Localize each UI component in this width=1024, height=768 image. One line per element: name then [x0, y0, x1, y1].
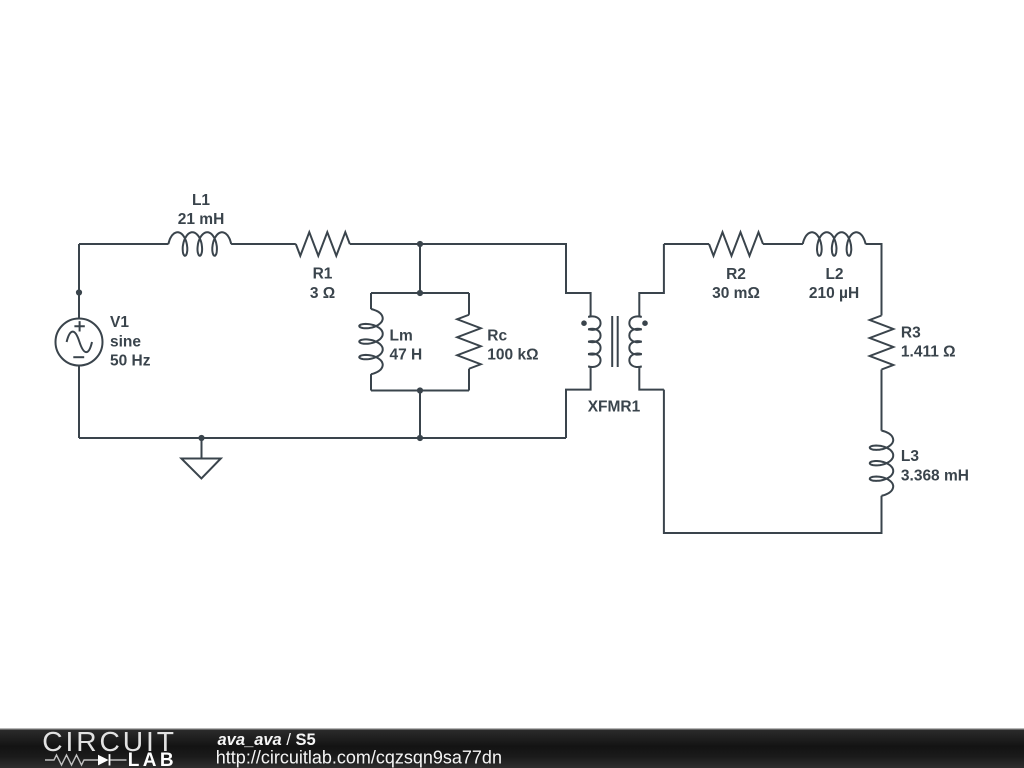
svg-text:L2: L2	[825, 266, 843, 283]
wire transformer secondary bottom lead	[639, 368, 664, 389]
wire ground rail	[79, 437, 566, 439]
wire L1 to R1	[231, 243, 296, 245]
wire Rc bottom lead	[468, 369, 470, 391]
svg-text:Rc: Rc	[487, 328, 507, 345]
voltage source V1 circle	[56, 319, 103, 366]
transformer XFMR1 secondary winding	[629, 315, 641, 368]
wire V1 bottom lead	[78, 366, 80, 439]
transformer XFMR1 primary winding	[588, 315, 600, 368]
CircuitLab logo diode	[98, 755, 109, 766]
svg-text:1.411 Ω: 1.411 Ω	[901, 344, 956, 361]
wire Lm top lead	[370, 293, 372, 309]
wire R3 to L3	[881, 370, 883, 431]
node dot parallel top	[417, 290, 423, 296]
V1 sine wave	[67, 332, 92, 352]
wire R1 to transformer primary corner	[350, 244, 591, 315]
svg-text:LAB: LAB	[128, 750, 177, 768]
svg-text:sine: sine	[110, 333, 141, 350]
wire parallel section bottom bar	[371, 390, 469, 392]
svg-text:R1: R1	[313, 266, 333, 283]
ground symbol triangle	[181, 459, 220, 479]
wire secondary top rail to R2	[664, 243, 709, 245]
V1 minus sign	[73, 356, 84, 358]
XFMR1 primary polarity dot	[581, 320, 587, 326]
node dot ground rail center	[417, 435, 423, 441]
ground stem	[201, 438, 203, 459]
inductor L2	[803, 232, 866, 255]
svg-text:3 Ω: 3 Ω	[310, 285, 335, 302]
svg-text:Lm: Lm	[390, 328, 413, 345]
wire parallel section top bar	[371, 292, 469, 294]
node dot top rail branch	[417, 241, 423, 247]
node dot V1 top	[76, 289, 82, 295]
V1 plus sign	[74, 321, 84, 331]
resistor Rc	[457, 315, 481, 369]
XFMR1 secondary polarity dot	[642, 320, 648, 326]
resistor R1	[296, 232, 350, 256]
footer top border line	[0, 728, 1024, 730]
resistor R2	[709, 232, 763, 256]
svg-text:3.368 mH: 3.368 mH	[901, 467, 969, 484]
wire transformer secondary top lead	[639, 244, 664, 315]
wire node branch down to parallel section	[419, 244, 421, 293]
inductor L1	[168, 232, 231, 255]
svg-text:ava_ava / S5: ava_ava / S5	[218, 731, 316, 749]
svg-text:L3: L3	[901, 448, 919, 465]
svg-text:30 mΩ: 30 mΩ	[712, 285, 760, 302]
svg-text:47 H: 47 H	[390, 347, 423, 364]
inductor L3	[870, 431, 893, 496]
svg-text:210 µH: 210 µH	[809, 285, 859, 302]
svg-text:50 Hz: 50 Hz	[110, 352, 151, 369]
wire parallel section down to ground rail	[419, 391, 421, 439]
wire Lm bottom lead	[370, 374, 372, 390]
wire top rail left (V1 to L1)	[79, 243, 169, 245]
svg-text:http://circuitlab.com/cqzsqn9s: http://circuitlab.com/cqzsqn9sa77dn	[216, 748, 502, 768]
inductor Lm	[359, 309, 382, 374]
wire L2 to right corner	[866, 244, 882, 316]
node dot ground	[198, 435, 204, 441]
node dot parallel bottom	[417, 387, 423, 393]
svg-text:21 mH: 21 mH	[178, 211, 225, 228]
svg-text:V1: V1	[110, 314, 129, 331]
CircuitLab logo resistor-diode symbol	[45, 755, 127, 765]
svg-text:R2: R2	[726, 266, 746, 283]
resistor R3	[870, 316, 894, 370]
svg-text:R3: R3	[901, 324, 921, 341]
svg-text:XFMR1: XFMR1	[588, 399, 641, 416]
svg-text:L1: L1	[192, 192, 210, 209]
transformer XFMR1 core bars	[612, 316, 618, 367]
wire Rc top lead	[468, 293, 470, 315]
svg-text:100 kΩ: 100 kΩ	[487, 347, 538, 364]
wire R2 to L2	[763, 243, 803, 245]
wire V1 top lead	[78, 244, 80, 319]
wire transformer primary bottom	[566, 368, 591, 438]
wire L3 to secondary bottom rail	[664, 390, 882, 533]
